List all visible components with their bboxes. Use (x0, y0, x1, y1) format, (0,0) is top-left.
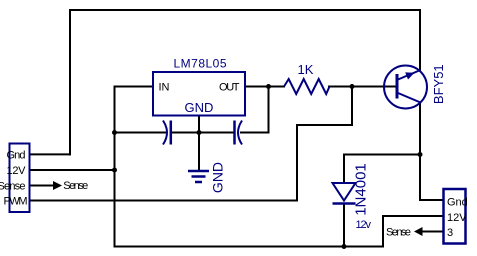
wire: capacitor row right segment (240, 132, 270, 134)
wire: left riser x=70 (69, 9, 71, 155)
wire: diode branch horizontal (344, 154, 421, 156)
node: diode / emitter junction (418, 152, 423, 157)
wire: OUT pin wire to resistor (244, 86, 285, 88)
wire: IN pin wire (114, 86, 155, 88)
wire: left connector Gnd pin to left riser (29, 153, 71, 155)
node: 12V / bus junction (112, 168, 117, 173)
svg-text:Sense: Sense (386, 227, 411, 239)
node: base junction (350, 84, 355, 89)
svg-text:BFY51: BFY51 (431, 64, 446, 104)
svg-text:12V: 12V (7, 165, 27, 177)
node: diode / bottom rail junction (342, 244, 347, 249)
wire: branch vertical x=297 (296, 124, 298, 202)
wire: bottom riser x=383 (382, 215, 384, 248)
wire: bottom rail (114, 246, 385, 248)
wire: Sense pin stub (29, 185, 54, 187)
regulator U1 LM78L05 box (153, 72, 245, 116)
capacitor C2 (flat plate) (233, 121, 236, 145)
wire: 12V pin wire (29, 169, 116, 171)
sense arrow (left, pointing right) (53, 181, 62, 190)
node: OUT junction (266, 84, 271, 89)
svg-text:LM78L05: LM78L05 (174, 57, 227, 71)
wire: regulator GND pin down to ground (198, 115, 200, 170)
wire: emitter vertical (419, 102, 421, 201)
capacitor C2 (curved plate) (238, 121, 242, 145)
node: cap row / bus junction (112, 130, 117, 135)
svg-text:Gnd: Gnd (7, 150, 26, 162)
wire: emitter to right connector Gnd (419, 199, 444, 201)
wire: to right connector 12V (382, 215, 444, 217)
capacitor C1 (curved plate) (163, 121, 167, 145)
wire: capacitor row middle segment (172, 132, 234, 134)
svg-text:GND: GND (185, 100, 214, 115)
diode D1 1N4001 triangle (333, 183, 356, 201)
wire: main left vertical bus x=114 (114, 86, 116, 248)
svg-text:Sense: Sense (0, 181, 26, 193)
transistor Q1 BFY51 (384, 66, 427, 109)
transistor collector arrow (405, 72, 414, 79)
wire: capacitor row left segment (114, 132, 167, 134)
connector J2 (right) box (444, 189, 466, 244)
wire: branch from base junction down (351, 86, 353, 127)
svg-text:IN: IN (159, 82, 170, 94)
diode cathode bar (333, 202, 356, 205)
svg-text:12V: 12V (447, 212, 467, 224)
svg-text:OUT: OUT (219, 82, 240, 94)
svg-text:1N4001: 1N4001 (353, 163, 370, 216)
wire: PWM row (29, 200, 298, 202)
connector J1 (left) box (10, 144, 30, 213)
wire: collector drop from top rail (419, 9, 421, 71)
svg-text:Sense: Sense (63, 180, 88, 192)
wire: diode cathode wire (343, 204, 345, 248)
svg-text:PWM: PWM (4, 196, 28, 208)
svg-text:3: 3 (447, 227, 453, 239)
wire: branch horizontal at y=125 (296, 124, 353, 126)
ground symbol (188, 171, 209, 182)
sense arrow (right, pointing left) (414, 227, 423, 236)
svg-text:1K: 1K (298, 62, 314, 77)
transistor base bar (396, 74, 399, 99)
svg-text:Gnd: Gnd (447, 197, 468, 209)
transistor emitter line (398, 93, 421, 103)
wire: diode anode wire (343, 154, 345, 185)
wire: top rail (69, 9, 421, 11)
wire: right connector pin3 stub (416, 231, 444, 233)
capacitor C1 (flat plate) (170, 121, 173, 145)
transistor collector line (398, 70, 421, 80)
wire: resistor right lead to transistor base (328, 86, 397, 88)
svg-text:GND: GND (210, 162, 226, 193)
node: cap row / gnd junction (197, 130, 202, 135)
svg-text:12v: 12v (356, 219, 372, 231)
resistor R1 1K (284, 79, 330, 94)
wire: drop from OUT junction to capacitor row (268, 86, 270, 134)
